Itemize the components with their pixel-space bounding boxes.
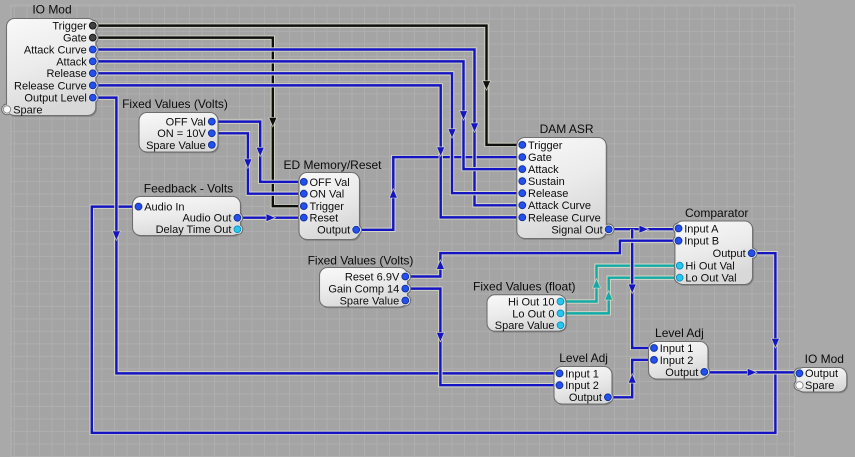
svg-text:ON = 10V: ON = 10V [157,128,206,140]
svg-text:Fixed Values (Volts): Fixed Values (Volts) [308,254,414,268]
svg-text:ED Memory/Reset: ED Memory/Reset [283,158,382,172]
svg-text:Input 1: Input 1 [660,343,694,355]
svg-text:Audio In: Audio In [144,202,184,214]
svg-text:Output Level: Output Level [24,93,86,105]
svg-text:Delay Time Out: Delay Time Out [156,224,232,236]
svg-text:Hi Out 10: Hi Out 10 [508,296,554,308]
svg-text:Input B: Input B [684,236,719,248]
svg-text:Level Adj: Level Adj [655,326,704,340]
svg-text:Spare Value: Spare Value [340,295,400,307]
svg-text:Release Curve: Release Curve [14,80,87,92]
svg-text:Input 2: Input 2 [660,355,694,367]
svg-text:Spare Value: Spare Value [495,320,555,332]
svg-text:IO Mod: IO Mod [805,352,844,366]
svg-text:Output: Output [317,225,350,237]
svg-text:Input 1: Input 1 [565,368,599,380]
svg-text:Lo Out Val: Lo Out Val [685,273,736,285]
svg-text:IO Mod: IO Mod [32,3,71,17]
svg-text:Audio Out: Audio Out [182,213,231,225]
svg-text:Gate: Gate [63,33,87,45]
svg-text:Output: Output [569,392,602,404]
svg-text:DAM ASR: DAM ASR [540,122,594,136]
svg-text:Lo Out 0: Lo Out 0 [512,308,554,320]
svg-text:Attack Curve: Attack Curve [528,200,591,212]
svg-text:Trigger: Trigger [310,201,345,213]
svg-text:Hi Out Val: Hi Out Val [685,261,734,273]
svg-text:Fixed Values (float): Fixed Values (float) [473,279,576,293]
svg-text:Attack Curve: Attack Curve [24,44,87,56]
svg-text:Spare Value: Spare Value [146,140,206,152]
svg-text:Level Adj: Level Adj [559,351,608,365]
svg-text:Input 2: Input 2 [565,380,599,392]
svg-text:Spare: Spare [805,380,834,392]
svg-text:OFF Val: OFF Val [310,177,350,189]
svg-text:Reset: Reset [310,213,339,225]
svg-text:Output: Output [713,248,746,260]
svg-text:Sustain: Sustain [528,176,565,188]
svg-text:Attack: Attack [56,56,87,68]
svg-text:Trigger: Trigger [52,21,87,33]
svg-text:Comparator: Comparator [685,206,748,220]
svg-text:Release Curve: Release Curve [528,212,601,224]
svg-text:Trigger: Trigger [528,140,563,152]
svg-text:Signal Out: Signal Out [551,224,602,236]
svg-text:Output: Output [665,367,698,379]
svg-text:Attack: Attack [528,164,559,176]
svg-text:Gain Comp 14: Gain Comp 14 [328,284,399,296]
svg-text:Fixed Values (Volts): Fixed Values (Volts) [122,97,228,111]
svg-text:Feedback - Volts: Feedback - Volts [144,181,233,195]
svg-text:Reset 6.9V: Reset 6.9V [345,271,400,283]
svg-text:OFF Val: OFF Val [166,117,206,129]
svg-text:Release: Release [528,188,568,200]
svg-text:Release: Release [46,68,86,80]
svg-text:Input A: Input A [684,223,719,235]
svg-text:Spare: Spare [13,104,42,116]
svg-text:Output: Output [805,368,838,380]
svg-text:ON Val: ON Val [310,189,345,201]
svg-text:Gate: Gate [528,152,552,164]
